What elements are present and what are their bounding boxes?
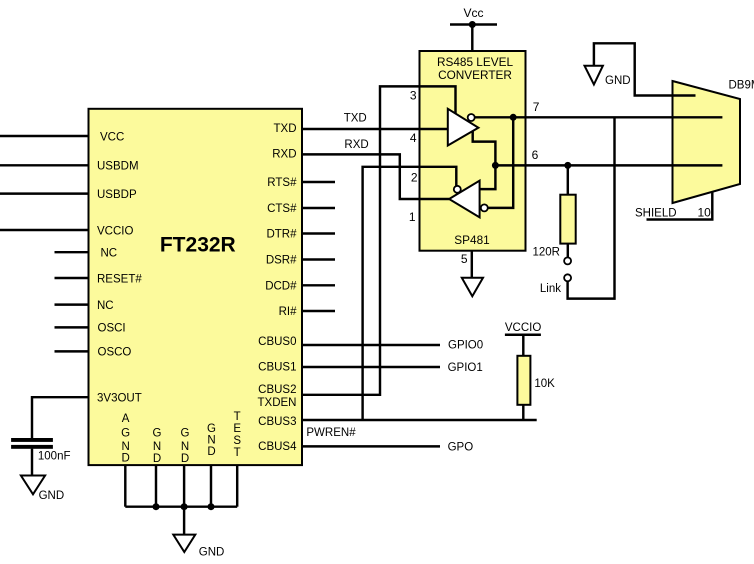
svg-text:DSR#: DSR#	[266, 255, 297, 267]
svg-text:RTS#: RTS#	[267, 177, 297, 189]
svg-text:GPIO0: GPIO0	[448, 339, 483, 351]
svg-text:USBDM: USBDM	[97, 161, 139, 173]
wire CBUS3 to SP481 pin 2 enable	[363, 167, 457, 420]
wire 3V3OUT to capacitor	[32, 397, 89, 438]
svg-text:VCC: VCC	[100, 131, 124, 143]
junction dot pin 7 node	[510, 114, 517, 121]
svg-text:Vcc: Vcc	[463, 6, 483, 20]
driver output wire to pin 7	[475, 116, 723, 118]
svg-text:OSCO: OSCO	[98, 347, 132, 359]
svg-text:GND: GND	[153, 427, 162, 465]
wire OSCI stub	[55, 326, 89, 328]
svg-text:CTS#: CTS#	[267, 203, 297, 215]
wire USBDM pin	[0, 164, 89, 166]
power symbol VCCIO bar	[505, 334, 541, 337]
svg-text:SHIELD: SHIELD	[635, 208, 677, 220]
wire receiver inverting input to pin 7 node	[488, 117, 514, 208]
wire CBUS1 to GPIO1	[302, 366, 440, 368]
wire RTS# stub	[302, 181, 335, 183]
svg-text:5: 5	[461, 252, 468, 266]
wire VCC pin	[0, 135, 89, 137]
wire DTR# stub	[302, 232, 335, 234]
wire GND pin 2 down	[183, 465, 185, 507]
wire DB9M pin 5 ground	[594, 43, 696, 95]
svg-text:AGND: AGND	[121, 413, 130, 465]
svg-text:RESET#: RESET#	[97, 273, 142, 285]
svg-text:CBUS1: CBUS1	[258, 361, 296, 373]
svg-text:RI#: RI#	[279, 306, 298, 318]
svg-text:Link: Link	[540, 283, 561, 295]
wire SP481 pin 5	[471, 251, 473, 278]
junction dot 120R top	[564, 162, 571, 169]
driver noninverting output wire to pin 6 node	[473, 131, 496, 189]
wire GND pin 1 down	[155, 465, 157, 507]
junction dot ground bus 1	[153, 503, 160, 510]
ground symbol below capacitor	[21, 476, 45, 495]
svg-text:OSCI: OSCI	[98, 323, 126, 335]
svg-text:PWREN#: PWREN#	[306, 427, 356, 439]
svg-text:GPIO1: GPIO1	[448, 362, 483, 374]
junction dot ground bus 3	[208, 503, 215, 510]
wire CBUS0 to GPIO0	[302, 344, 440, 346]
link terminal circle upper	[564, 257, 571, 264]
svg-text:CBUS4: CBUS4	[258, 441, 297, 453]
wire CTS# stub	[302, 207, 335, 209]
svg-text:120R: 120R	[533, 246, 561, 258]
wire pin 6 node to 120R	[567, 165, 569, 194]
svg-text:GPO: GPO	[448, 442, 474, 454]
svg-text:TXD: TXD	[274, 123, 297, 135]
svg-text:TXDEN: TXDEN	[258, 397, 297, 409]
wire link return to pin 7 line	[568, 117, 615, 298]
wire VCCIO pin	[0, 229, 89, 231]
svg-text:3V3OUT: 3V3OUT	[97, 393, 142, 405]
svg-text:GND: GND	[605, 75, 631, 87]
ground symbol near DB9M	[585, 66, 603, 85]
svg-text:RS485 LEVELCONVERTER: RS485 LEVELCONVERTER	[437, 55, 514, 82]
svg-text:SP481: SP481	[454, 233, 489, 247]
driver buffer triangle	[448, 109, 479, 146]
wire Vcc to SP481	[471, 25, 473, 52]
wire 120R to link terminal	[567, 244, 569, 258]
wire USBDP pin	[0, 192, 89, 194]
svg-text:100nF: 100nF	[38, 450, 71, 462]
wire CBUS3 PWREN# bus	[302, 419, 537, 421]
svg-text:GND: GND	[207, 423, 216, 458]
junction dot pin 6 node	[492, 162, 499, 169]
svg-text:DTR#: DTR#	[266, 229, 297, 241]
svg-text:TXD: TXD	[344, 113, 367, 125]
svg-text:GND: GND	[181, 427, 190, 465]
wire OSCO stub	[55, 350, 89, 352]
wire capacitor to ground	[31, 449, 33, 476]
svg-text:TEST: TEST	[233, 411, 241, 459]
svg-text:1: 1	[409, 210, 416, 224]
wire VCCIO bar to resistor	[522, 335, 524, 356]
junction dot ground bus 2	[181, 503, 188, 510]
svg-text:USBDP: USBDP	[97, 189, 137, 201]
driver inverting bubble	[468, 114, 475, 121]
svg-text:GND: GND	[199, 547, 225, 559]
svg-text:6: 6	[532, 148, 539, 162]
svg-text:10: 10	[698, 206, 712, 220]
svg-text:3: 3	[410, 89, 417, 103]
receiver inverting input bubble	[481, 204, 488, 211]
svg-text:CBUS3: CBUS3	[258, 416, 296, 428]
power symbol Vcc bar	[450, 23, 497, 26]
wire CBUS4 to GPO	[302, 445, 440, 447]
svg-text:CBUS0: CBUS0	[258, 336, 296, 348]
svg-text:4: 4	[410, 131, 417, 145]
wire RESET# stub	[55, 277, 89, 279]
wire AGND pin down	[124, 465, 126, 507]
IC U1 FT232R body	[89, 109, 303, 465]
wire DSR# stub	[302, 258, 335, 260]
wire ground bus under FT232R	[125, 505, 237, 507]
wire NC stub 1	[55, 251, 89, 253]
wire NC stub 2	[55, 303, 89, 305]
svg-text:NC: NC	[101, 248, 118, 260]
wire ground bus to ground symbol	[183, 507, 185, 535]
wire TEST pin down	[236, 465, 238, 507]
wire CBUS2 TXDEN loop to SP481 pin 3	[302, 86, 456, 394]
ground symbol below SP481	[462, 278, 483, 296]
wire DB9M shield pin 10	[647, 192, 713, 220]
capacitor C1 100nF plates	[11, 438, 53, 449]
svg-text:RXD: RXD	[344, 139, 368, 151]
svg-text:GND: GND	[39, 490, 65, 502]
wire DCD# stub	[302, 284, 335, 286]
svg-text:VCCIO: VCCIO	[97, 225, 133, 237]
svg-text:DCD#: DCD#	[265, 280, 297, 292]
wire pin 6 line	[495, 164, 722, 166]
wire TXD to SP481 driver input	[302, 128, 448, 130]
svg-text:RXD: RXD	[272, 149, 296, 161]
resistor R2 10K body	[517, 356, 530, 405]
wire RI# stub	[302, 310, 335, 312]
IC U2 SP481 body	[420, 51, 526, 251]
svg-text:CBUS2: CBUS2	[258, 384, 296, 396]
link terminal circle lower	[564, 274, 571, 281]
svg-text:VCCIO: VCCIO	[505, 322, 541, 334]
wire RXD to SP481 receiver output	[302, 154, 449, 199]
resistor R1 120R body	[560, 195, 575, 244]
svg-text:2: 2	[411, 171, 418, 185]
wire 10K to CBUS3 bus	[522, 405, 524, 420]
receiver inverter triangle	[449, 181, 480, 218]
ground symbol below FT232R	[173, 535, 195, 552]
connector J1 DB9M body	[673, 81, 741, 203]
svg-text:DB9M: DB9M	[729, 79, 754, 91]
svg-text:FT232R: FT232R	[160, 234, 236, 257]
wire GND pin 3 down	[210, 465, 212, 507]
receiver enable bubble	[454, 186, 461, 193]
svg-text:10K: 10K	[534, 378, 555, 390]
svg-text:NC: NC	[97, 300, 114, 312]
junction dot on Vcc bar	[469, 21, 476, 28]
svg-text:7: 7	[533, 100, 540, 114]
